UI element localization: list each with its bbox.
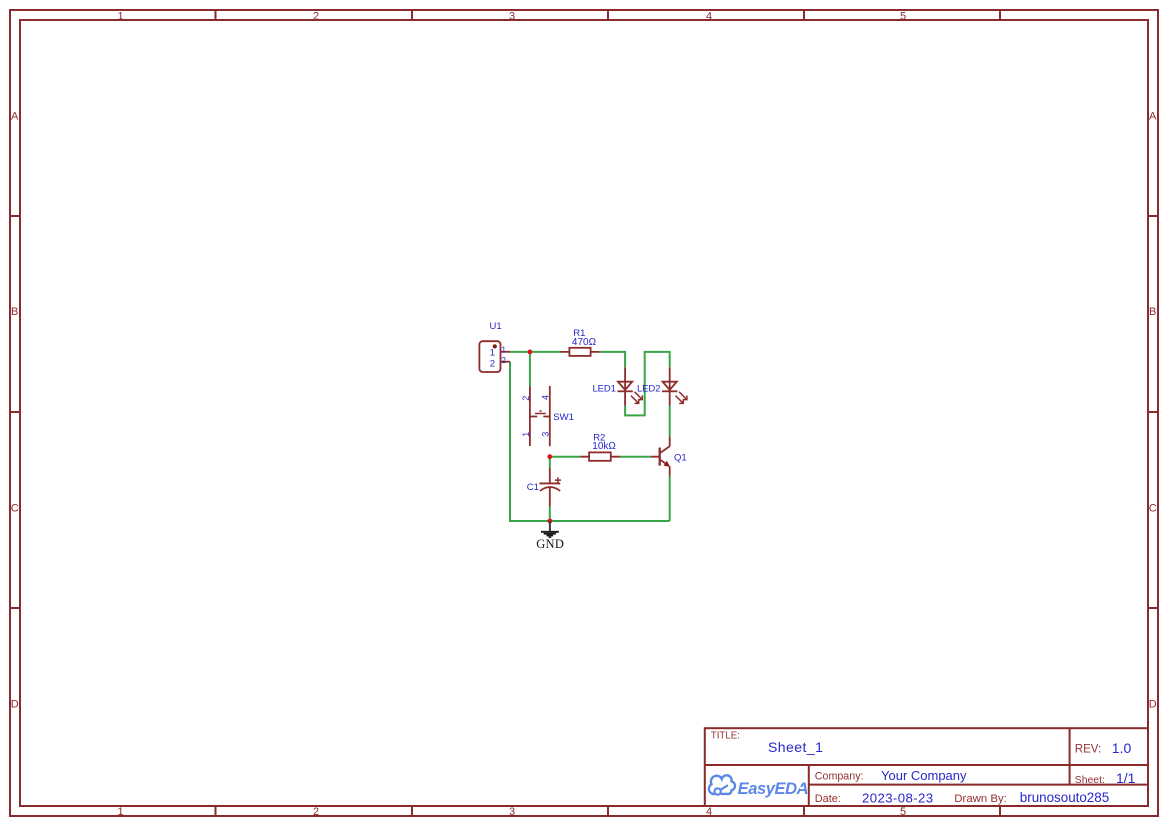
svg-text:REV:: REV: bbox=[1075, 744, 1101, 756]
svg-text:1.0: 1.0 bbox=[1112, 740, 1132, 756]
svg-text:1: 1 bbox=[117, 806, 123, 818]
svg-text:GND: GND bbox=[536, 537, 564, 551]
svg-text:3: 3 bbox=[540, 432, 550, 437]
svg-text:Company:: Company: bbox=[815, 771, 864, 783]
svg-text:5: 5 bbox=[900, 806, 906, 818]
svg-text:Q1: Q1 bbox=[674, 452, 687, 463]
svg-text:Drawn By:: Drawn By: bbox=[954, 793, 1007, 805]
svg-text:B: B bbox=[1149, 306, 1156, 318]
svg-text:A: A bbox=[11, 111, 19, 123]
svg-text:4: 4 bbox=[706, 10, 712, 22]
svg-text:B: B bbox=[11, 306, 18, 318]
svg-text:3: 3 bbox=[509, 806, 515, 818]
svg-text:2023-08-23: 2023-08-23 bbox=[862, 791, 933, 806]
svg-text:2: 2 bbox=[521, 396, 531, 401]
svg-text:Sheet_1: Sheet_1 bbox=[768, 739, 823, 755]
svg-text:Your Company: Your Company bbox=[881, 768, 967, 783]
svg-text:2: 2 bbox=[490, 359, 495, 370]
svg-text:brunosouto285: brunosouto285 bbox=[1020, 790, 1109, 805]
svg-text:10kΩ: 10kΩ bbox=[592, 441, 616, 452]
svg-text:EasyEDA: EasyEDA bbox=[738, 780, 809, 798]
svg-text:A: A bbox=[1149, 111, 1157, 123]
svg-text:3: 3 bbox=[509, 10, 515, 22]
svg-text:2: 2 bbox=[502, 356, 507, 365]
svg-text:Date:: Date: bbox=[815, 793, 841, 805]
svg-text:2: 2 bbox=[313, 806, 319, 818]
svg-text:1/1: 1/1 bbox=[1116, 770, 1136, 786]
svg-text:LED1: LED1 bbox=[593, 383, 616, 394]
svg-text:C1: C1 bbox=[527, 482, 539, 493]
svg-text:D: D bbox=[11, 699, 19, 711]
svg-text:1: 1 bbox=[502, 345, 507, 354]
svg-text:1: 1 bbox=[117, 10, 123, 22]
svg-text:1: 1 bbox=[521, 432, 531, 437]
svg-text:4: 4 bbox=[706, 806, 712, 818]
svg-text:LED2: LED2 bbox=[637, 383, 660, 394]
svg-text:TITLE:: TITLE: bbox=[711, 731, 740, 742]
svg-text:C: C bbox=[11, 503, 19, 515]
svg-text:U1: U1 bbox=[490, 321, 502, 332]
svg-text:Sheet:: Sheet: bbox=[1075, 775, 1105, 786]
svg-text:470Ω: 470Ω bbox=[572, 337, 597, 348]
svg-text:C: C bbox=[1149, 503, 1157, 515]
svg-text:2: 2 bbox=[313, 10, 319, 22]
svg-text:SW1: SW1 bbox=[553, 412, 574, 423]
svg-text:5: 5 bbox=[900, 10, 906, 22]
svg-text:1: 1 bbox=[490, 348, 495, 359]
svg-text:D: D bbox=[1149, 699, 1157, 711]
svg-text:4: 4 bbox=[540, 395, 550, 400]
